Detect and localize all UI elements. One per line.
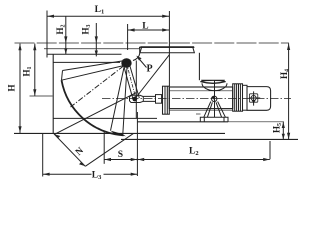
clevis fork [130, 95, 144, 102]
svg-text:P: P [147, 64, 153, 75]
cylinder bottom second line [169, 109, 232, 111]
beam top thin extension for H5 [228, 121, 284, 123]
floor line under actuator [121, 138, 298, 140]
lever centerline dash-dot [127, 63, 137, 99]
dimension L line [128, 29, 170, 31]
cylinder axis dash-dot [102, 98, 291, 100]
reference line W (flange top extension) [44, 48, 140, 50]
svg-text:H2: H2 [55, 24, 67, 34]
dimension L3 line [43, 173, 137, 175]
dimension H1 line [34, 44, 36, 96]
motor bolt cross [249, 91, 260, 105]
dimension S line [104, 159, 137, 161]
motor bolt circle [251, 96, 256, 101]
svg-text:H: H [7, 84, 17, 91]
trunnion pivot crescent [212, 96, 215, 99]
reference line X (bin flange bottom / box top) [53, 61, 120, 63]
pivot boss (filled) [121, 58, 131, 68]
body right wall [198, 53, 200, 80]
svg-text:H5: H5 [272, 123, 284, 133]
body left wall [133, 47, 140, 60]
filler cup lens [200, 80, 225, 83]
dimension L1 line [47, 15, 169, 17]
S left extension line [103, 131, 105, 164]
rear collar [243, 85, 248, 110]
rear rib section [233, 84, 243, 111]
internal box ledge line [53, 117, 157, 119]
flap open tip (filled) [111, 131, 127, 137]
clevis pin circle (filled) [132, 97, 137, 102]
upper flange plate [140, 47, 194, 53]
svg-text:S: S [118, 150, 123, 160]
lever edge 2 [129, 64, 139, 98]
H1 bottom reference line [30, 95, 53, 97]
svg-text:H3: H3 [81, 24, 93, 34]
L1 left extension [46, 11, 48, 58]
body top line [139, 46, 194, 48]
diagonal A (rod link extended) [135, 55, 170, 99]
diagonal D1 (chute slope) [55, 93, 137, 135]
trunnion pivot circle [212, 96, 217, 101]
N far-end extension line to box bottom [85, 133, 133, 166]
white backing for L3 label [92, 170, 104, 179]
rod nut [156, 95, 162, 104]
clevis support block [135, 61, 137, 119]
flap open right edge [123, 67, 127, 134]
dimension H3 line with arrows [95, 23, 97, 56]
svg-text:L: L [142, 22, 148, 32]
lever edge 1 [124, 65, 133, 99]
S/L2/L3 shared extension line [136, 112, 138, 176]
dimension H4 line [288, 43, 290, 139]
dimension H5 line [282, 122, 284, 139]
cup stem [214, 80, 216, 117]
lower box left wall [52, 54, 54, 133]
dimension H line [19, 44, 21, 133]
piston rod [143, 96, 155, 101]
flap closed tip face [62, 71, 63, 81]
motor bolt lower wedge [252, 101, 256, 104]
flap closed upper edge [63, 61, 126, 71]
box bottom long line [14, 132, 225, 134]
rear ribs [235, 84, 241, 111]
trunnion foot plate [200, 117, 228, 122]
P leader with arrow [138, 57, 147, 68]
L left extension [127, 24, 129, 50]
flap open left edge [111, 67, 125, 131]
cylinder front lug bottom [196, 113, 201, 115]
L1/L right extension [168, 11, 170, 86]
front flange inner plates [165, 86, 167, 114]
svg-text:H1: H1 [22, 66, 34, 76]
cylinder front flange [163, 86, 170, 114]
L3 left extension line [42, 133, 44, 176]
svg-text:H4: H4 [279, 69, 291, 79]
dimension H2 line with arrows [65, 16, 67, 54]
trunnion bracket legs [204, 102, 226, 118]
reference line V (bin flange top) [47, 53, 122, 55]
motor bolt square [249, 94, 257, 102]
L2 right extension line [269, 141, 271, 159]
cylinder body [169, 87, 232, 109]
reference line U (flap-top plane datum) [15, 42, 290, 44]
swing arc [62, 80, 124, 135]
filler cup bowl [202, 83, 227, 90]
flap mid position dash-dot radius [71, 66, 124, 107]
dimension N line (diagonal) [54, 134, 85, 166]
motor block [247, 87, 271, 111]
cylinder inner top line [169, 90, 232, 92]
svg-text:L2: L2 [189, 147, 199, 158]
dimension L2 line [138, 159, 270, 161]
flap closed lower edge [62, 66, 125, 81]
svg-text:L1: L1 [95, 5, 105, 16]
beam top line [137, 121, 228, 123]
